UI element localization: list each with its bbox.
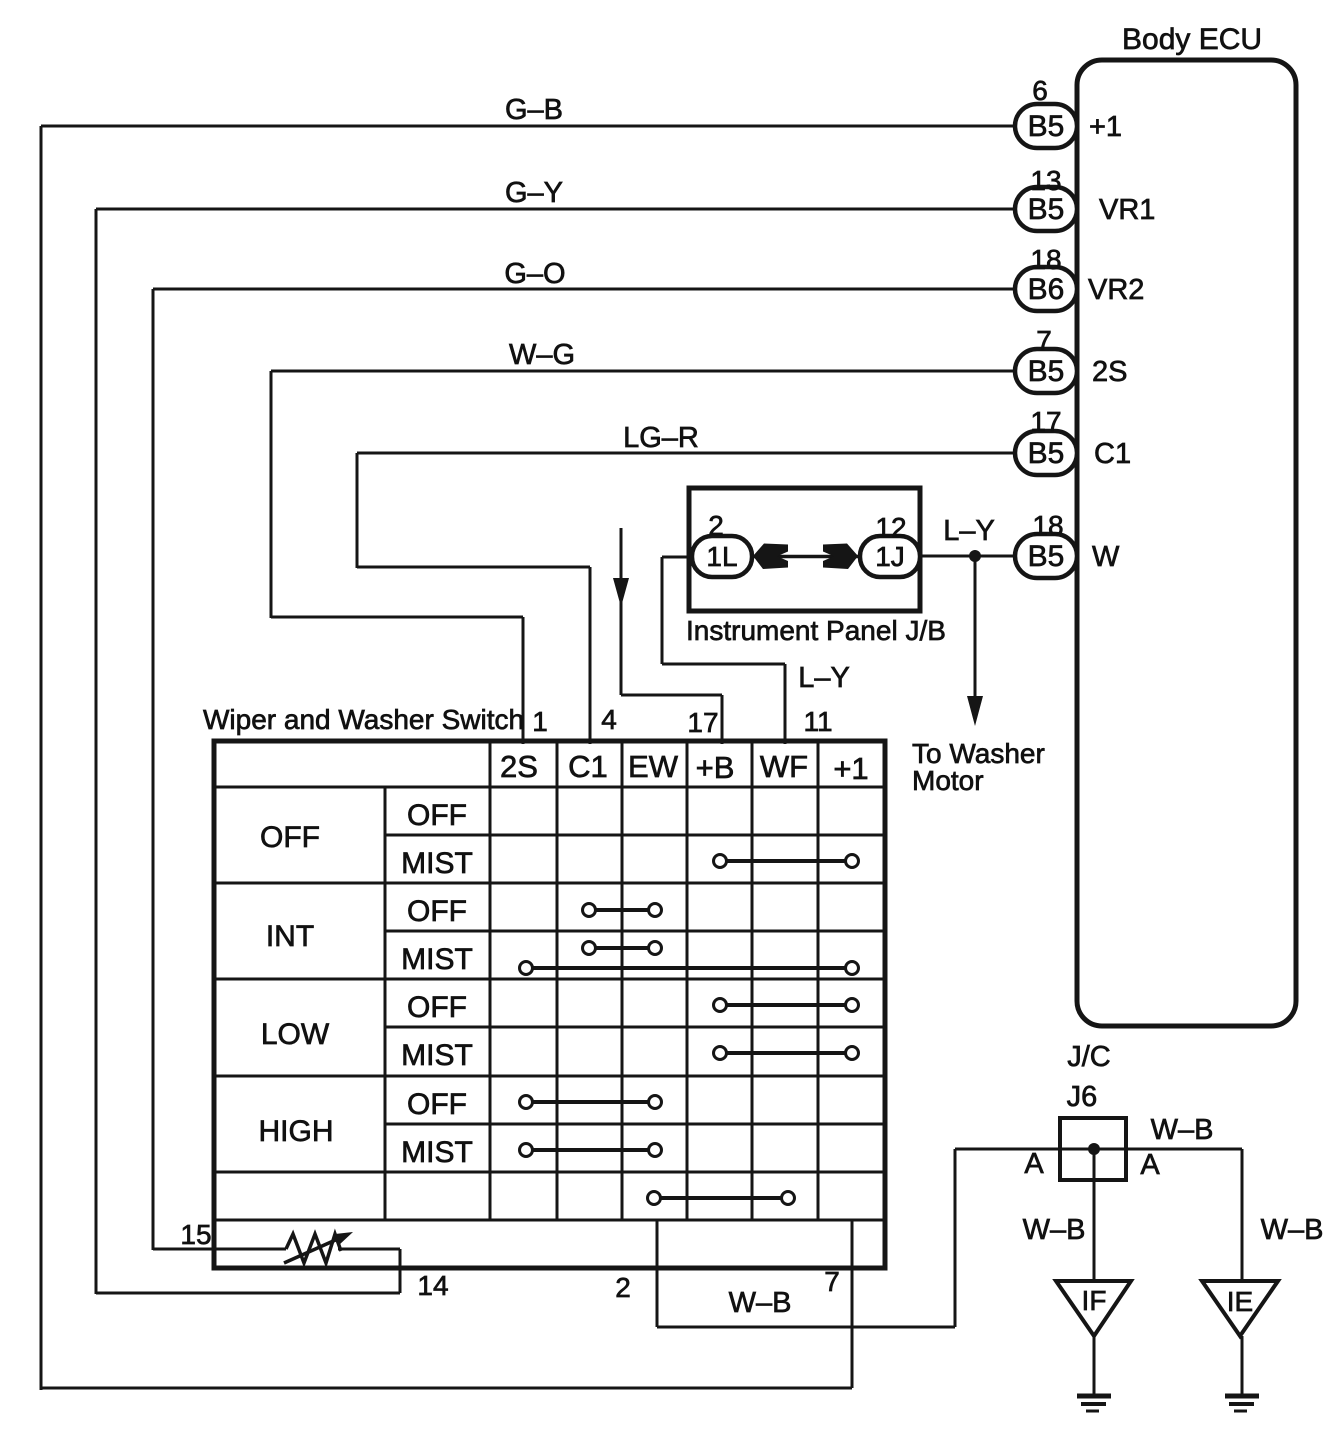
svg-text:MIST: MIST <box>401 943 473 976</box>
svg-text:EW: EW <box>628 749 679 784</box>
svg-text:1: 1 <box>532 706 548 737</box>
svg-text:G–O: G–O <box>504 258 565 290</box>
svg-text:18: 18 <box>1030 244 1061 275</box>
svg-text:IE: IE <box>1227 1286 1253 1317</box>
svg-text:W–B: W–B <box>1261 1214 1324 1246</box>
svg-text:C1: C1 <box>1094 438 1131 470</box>
svg-text:C1: C1 <box>568 749 608 784</box>
svg-text:MIST: MIST <box>401 847 473 880</box>
svg-text:L–Y: L–Y <box>943 515 995 547</box>
svg-text:G–Y: G–Y <box>505 177 563 209</box>
svg-text:W: W <box>1092 541 1120 573</box>
svg-text:A: A <box>1140 1149 1160 1181</box>
svg-text:A: A <box>1024 1148 1044 1180</box>
svg-text:17: 17 <box>1030 406 1061 437</box>
svg-text:12: 12 <box>875 512 906 543</box>
svg-text:15: 15 <box>180 1219 211 1250</box>
svg-text:OFF: OFF <box>407 1088 467 1121</box>
svg-text:J6: J6 <box>1067 1081 1098 1113</box>
svg-text:WF: WF <box>760 749 808 784</box>
svg-text:LOW: LOW <box>261 1018 330 1051</box>
svg-text:G–B: G–B <box>505 94 563 126</box>
svg-text:13: 13 <box>1030 165 1061 196</box>
svg-text:+B: +B <box>696 750 735 785</box>
svg-text:W–B: W–B <box>1151 1114 1214 1146</box>
svg-text:2S: 2S <box>1092 356 1127 388</box>
svg-text:L–Y: L–Y <box>798 662 850 694</box>
svg-text:1J: 1J <box>875 541 905 572</box>
svg-text:7: 7 <box>824 1266 840 1297</box>
svg-text:INT: INT <box>266 920 314 953</box>
svg-text:J/C: J/C <box>1067 1041 1111 1073</box>
svg-text:OFF: OFF <box>260 821 320 854</box>
svg-text:VR2: VR2 <box>1088 274 1144 306</box>
svg-text:+1: +1 <box>1089 111 1122 143</box>
svg-text:14: 14 <box>417 1270 448 1301</box>
svg-text:OFF: OFF <box>407 799 467 832</box>
svg-text:6: 6 <box>1032 75 1048 106</box>
svg-text:W–G: W–G <box>509 339 575 371</box>
svg-text:B6: B6 <box>1028 273 1065 306</box>
svg-text:2S: 2S <box>500 749 538 784</box>
svg-text:Wiper and Washer Switch: Wiper and Washer Switch <box>203 704 524 735</box>
svg-text:18: 18 <box>1032 510 1063 541</box>
svg-text:B5: B5 <box>1028 437 1065 470</box>
svg-text:B5: B5 <box>1028 110 1065 143</box>
svg-text:Motor: Motor <box>912 765 984 796</box>
svg-text:HIGH: HIGH <box>259 1115 334 1148</box>
svg-text:+1: +1 <box>833 751 868 786</box>
svg-text:IF: IF <box>1082 1285 1107 1316</box>
svg-text:17: 17 <box>687 707 718 738</box>
svg-text:LG–R: LG–R <box>623 422 699 454</box>
svg-text:Instrument Panel J/B: Instrument Panel J/B <box>686 615 946 646</box>
svg-text:7: 7 <box>1036 325 1052 356</box>
svg-text:B5: B5 <box>1028 355 1065 388</box>
svg-text:VR1: VR1 <box>1099 194 1155 226</box>
svg-text:MIST: MIST <box>401 1136 473 1169</box>
svg-text:W–B: W–B <box>729 1287 792 1319</box>
svg-text:2: 2 <box>708 510 724 541</box>
svg-text:MIST: MIST <box>401 1039 473 1072</box>
svg-text:OFF: OFF <box>407 895 467 928</box>
svg-text:Body ECU: Body ECU <box>1122 23 1262 56</box>
svg-text:B5: B5 <box>1028 193 1065 226</box>
svg-text:2: 2 <box>615 1272 631 1303</box>
svg-text:OFF: OFF <box>407 991 467 1024</box>
svg-text:1L: 1L <box>706 541 737 572</box>
svg-text:B5: B5 <box>1028 540 1065 573</box>
svg-text:4: 4 <box>601 704 617 735</box>
svg-text:11: 11 <box>803 706 832 737</box>
svg-text:W–B: W–B <box>1023 1214 1086 1246</box>
